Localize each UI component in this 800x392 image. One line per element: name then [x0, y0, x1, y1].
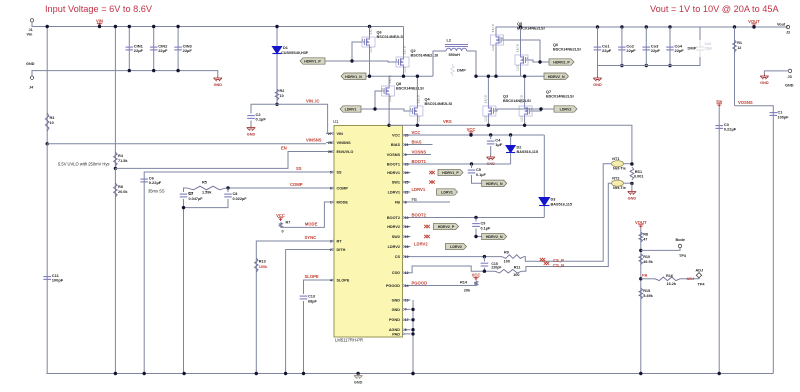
svg-text:VCC: VCC [472, 273, 481, 278]
svg-text:BOOT1: BOOT1 [412, 159, 427, 164]
resistor R14 [474, 281, 478, 286]
svg-text:PGOOD: PGOOD [412, 281, 428, 286]
pin BIAS 21 [404, 144, 410, 146]
pin CS 13 [404, 256, 410, 258]
wire EN [115, 152, 326, 169]
pin DITH 2 [326, 249, 332, 251]
wire LDRV2 to gates [532, 109, 554, 111]
net tag HDRV1_N sw [341, 73, 366, 79]
svg-text:FB: FB [642, 273, 647, 278]
svg-text:0.22µF: 0.22µF [149, 180, 162, 185]
svg-text:22µF: 22µF [675, 48, 685, 53]
pin COMP 6 [326, 187, 332, 189]
svg-text:22µF: 22µF [602, 48, 612, 53]
svg-text:DITH: DITH [337, 248, 346, 252]
svg-text:BSC014NE2LSI: BSC014NE2LSI [425, 102, 453, 106]
capacitor CIN3 [177, 27, 179, 71]
svg-text:19: 19 [405, 298, 409, 302]
svg-text:0.22µF: 0.22µF [724, 127, 737, 132]
wire CS row [411, 256, 503, 258]
capacitor C7 [184, 188, 188, 192]
svg-text:VOSNS: VOSNS [387, 153, 401, 157]
svg-text:CS: CS [395, 255, 401, 259]
capacitor Co5 DMP ghost [696, 40, 704, 57]
pin FB 8 [404, 201, 410, 203]
svg-text:CS_N: CS_N [553, 263, 564, 268]
net tag LDRV1 pin [437, 189, 458, 195]
net tag HDRV1_N mid [482, 180, 507, 186]
capacitor C11 [46, 144, 48, 374]
capacitor C9 [474, 216, 477, 219]
svg-text:VOSNS: VOSNS [412, 150, 427, 155]
svg-text:TP3: TP3 [679, 254, 686, 258]
ground input rail [214, 76, 222, 81]
svg-text:220pF: 220pF [491, 266, 502, 270]
pin SLOPE 4 [326, 279, 332, 281]
svg-text:1,2,3: 1,2,3 [516, 64, 520, 70]
wire VCC row [411, 134, 545, 136]
pin CSG 12 [404, 272, 410, 274]
svg-text:SLOPE: SLOPE [305, 274, 319, 279]
pin MODE 1 [326, 201, 332, 203]
svg-text:SYNC: SYNC [305, 235, 317, 240]
diode D3 [543, 135, 545, 218]
svg-text:PAD: PAD [392, 332, 400, 336]
svg-text:VCC: VCC [276, 213, 285, 218]
svg-text:5,6,7,8: 5,6,7,8 [369, 26, 373, 34]
svg-text:0.1µF: 0.1µF [481, 226, 491, 230]
wire Q6 source to SW1 node [369, 49, 371, 76]
svg-text:100: 100 [513, 273, 519, 277]
svg-text:Co5: Co5 [705, 42, 712, 46]
svg-text:C8: C8 [233, 192, 238, 196]
svg-text:R8: R8 [643, 233, 648, 237]
svg-text:VOUT: VOUT [635, 220, 647, 225]
svg-text:BSC014NE2LSI: BSC014NE2LSI [553, 48, 581, 52]
no-connect flag SW1 [429, 180, 435, 183]
svg-text:20: 20 [405, 133, 409, 137]
svg-text:ADJ: ADJ [696, 268, 704, 272]
pin PAD [404, 333, 410, 335]
svg-text:C7: C7 [189, 192, 194, 196]
transistor Q2 [396, 46, 409, 73]
svg-text:VCC: VCC [467, 127, 476, 132]
net tag HDRV1_P pin [438, 169, 463, 175]
net tag LDRV2 gate [554, 106, 577, 112]
svg-text:550nH: 550nH [449, 53, 461, 57]
svg-text:Net-Tie: Net-Tie [613, 166, 626, 170]
svg-text:22µF: 22µF [626, 48, 636, 53]
svg-text:BOOT2: BOOT2 [387, 216, 400, 220]
svg-text:Vout: Vout [777, 23, 786, 27]
svg-text:20k: 20k [464, 288, 471, 292]
svg-text:Vout = 1V to 10V @ 20A to 45A: Vout = 1V to 10V @ 20A to 45A [650, 4, 779, 14]
svg-text:2: 2 [330, 248, 332, 252]
svg-text:C13: C13 [308, 295, 315, 299]
diode D2 [509, 133, 512, 136]
pin VINSNS 28 [326, 142, 332, 144]
svg-text:EN: EN [281, 146, 287, 151]
wire Q5 source to SW2 [495, 47, 497, 76]
svg-text:HDRV1_P: HDRV1_P [304, 60, 321, 64]
no-connect flag HDRV1 [429, 171, 435, 174]
svg-text:5.5V UVLO with 250mV Hys: 5.5V UVLO with 250mV Hys [58, 162, 109, 167]
svg-text:ADJ: ADJ [687, 277, 695, 281]
wire HDRV1_P to gates [325, 42, 362, 61]
resistor R4 [114, 27, 116, 169]
svg-text:LDRV2: LDRV2 [450, 245, 462, 249]
net tag LDRV1 gate [340, 106, 361, 112]
svg-text:COMP: COMP [290, 182, 303, 187]
svg-text:5,6,7,8: 5,6,7,8 [491, 24, 495, 32]
capacitor Co2 [620, 25, 623, 28]
svg-text:GND: GND [26, 62, 35, 66]
wire Q4 source to VRS [416, 118, 418, 125]
wire VRS rail [403, 125, 632, 163]
wire DITH [286, 250, 326, 374]
svg-text:15: 15 [405, 235, 409, 239]
svg-text:R7: R7 [286, 221, 291, 225]
pin HDRV2 16 [404, 226, 410, 228]
power flag VOUT fb [638, 225, 643, 228]
svg-text:27: 27 [328, 132, 332, 136]
resistor R8 fb [640, 228, 642, 374]
svg-text:RS1: RS1 [635, 170, 642, 174]
svg-text:R11: R11 [514, 265, 521, 269]
svg-text:35ms SS: 35ms SS [148, 189, 165, 194]
svg-text:26: 26 [328, 150, 332, 154]
svg-text:5,6,7,8: 5,6,7,8 [520, 95, 524, 103]
wire GND rail [32, 71, 218, 76]
testpoint TP3 Bode [639, 249, 642, 252]
svg-text:22µF: 22µF [705, 47, 714, 51]
svg-text:BAS516,115: BAS516,115 [551, 202, 573, 206]
wire Q6 drain from rail [368, 25, 371, 28]
wire Q8 source to VRS [388, 98, 390, 125]
svg-text:1,2,3: 1,2,3 [520, 115, 524, 121]
svg-text:0.1µF: 0.1µF [476, 173, 486, 177]
svg-text:D1: D1 [283, 46, 288, 50]
inductor L2 [433, 51, 446, 76]
svg-text:49.9k: 49.9k [643, 260, 653, 264]
power flag VIN [97, 23, 102, 26]
svg-text:14: 14 [405, 284, 409, 288]
svg-text:68pF: 68pF [308, 300, 318, 304]
svg-text:6: 6 [405, 328, 407, 332]
svg-text:0.1µF: 0.1µF [256, 117, 267, 122]
svg-text:R15: R15 [643, 289, 650, 293]
resistor R8 [114, 167, 117, 170]
svg-text:R8: R8 [118, 185, 123, 189]
svg-text:J1: J1 [29, 28, 33, 32]
svg-text:BAS516,115: BAS516,115 [517, 150, 539, 154]
net tie NT1 [612, 161, 624, 167]
svg-text:22µF: 22µF [158, 48, 168, 53]
no-connect flag CS_P [540, 258, 546, 261]
svg-text:R1: R1 [737, 41, 742, 45]
svg-text:C9: C9 [481, 222, 486, 226]
svg-text:16: 16 [405, 225, 409, 229]
resistor DMP ghost [451, 64, 455, 76]
svg-text:MODE: MODE [305, 222, 318, 227]
svg-text:HDRV2_P: HDRV2_P [438, 225, 455, 229]
svg-text:22µF: 22µF [134, 48, 144, 53]
svg-text:C1: C1 [778, 111, 783, 115]
wire Vin rail [32, 22, 404, 27]
pin HDRV1 24 [404, 172, 410, 174]
svg-text:TP4: TP4 [698, 282, 706, 286]
svg-text:CUS05S40,H3F: CUS05S40,H3F [281, 51, 309, 55]
wire BOOT1 row [411, 163, 511, 165]
svg-text:100pF: 100pF [778, 115, 790, 119]
svg-text:VOSNS: VOSNS [738, 100, 753, 105]
pin VIN 27 [326, 133, 332, 135]
svg-text:12: 12 [405, 271, 409, 275]
svg-text:0.001: 0.001 [634, 174, 644, 178]
svg-text:5,6,7,8: 5,6,7,8 [516, 44, 520, 52]
diode D1 [276, 27, 278, 105]
capacitor C2 [251, 104, 277, 113]
svg-text:BSC014NE2LSI: BSC014NE2LSI [546, 94, 574, 98]
svg-text:100: 100 [504, 260, 510, 264]
svg-text:U1: U1 [333, 119, 339, 124]
svg-text:BSC014NE2LSI: BSC014NE2LSI [503, 99, 531, 103]
resistor R2 [275, 89, 279, 100]
svg-text:BSC014NE2LSI: BSC014NE2LSI [377, 35, 405, 39]
svg-text:71.5k: 71.5k [118, 159, 128, 163]
transistor Q6b [519, 25, 522, 28]
capacitor CIN1 [128, 27, 130, 71]
capacitor Co4 [668, 25, 671, 28]
svg-text:LDRV2: LDRV2 [560, 108, 572, 112]
svg-text:BIAS: BIAS [391, 143, 401, 147]
pin BOOT1 23 [404, 163, 410, 165]
wire SW2 node [476, 75, 544, 77]
svg-text:BOOT1: BOOT1 [387, 162, 400, 166]
wire SS [144, 172, 326, 374]
wire VINSNS [46, 142, 49, 145]
svg-text:10: 10 [50, 121, 54, 125]
wire CS_N to NT2 [522, 183, 612, 271]
svg-text:1.59k: 1.59k [202, 191, 212, 195]
svg-text:J3: J3 [788, 75, 792, 79]
svg-text:SS: SS [296, 166, 302, 171]
svg-text:R16: R16 [666, 274, 673, 278]
svg-text:5.49k: 5.49k [643, 294, 653, 298]
power flag VCC [468, 132, 473, 135]
svg-text:VCC: VCC [392, 133, 400, 137]
svg-text:GND: GND [214, 83, 223, 87]
transistor Q3 [487, 76, 489, 104]
svg-text:25: 25 [405, 180, 409, 184]
svg-text:R3: R3 [50, 116, 55, 120]
svg-text:5,6,7,8: 5,6,7,8 [483, 95, 487, 103]
capacitor C5 [470, 162, 473, 165]
svg-text:LM5117RH-PR: LM5117RH-PR [335, 338, 363, 343]
no-connect flag HDRV2 [424, 225, 430, 228]
resistor R15 [639, 288, 643, 299]
svg-text:Bode: Bode [676, 238, 686, 242]
svg-text:R2: R2 [280, 89, 285, 93]
svg-text:Q2: Q2 [411, 49, 416, 53]
resistor R7 [279, 223, 283, 228]
svg-text:FB: FB [395, 200, 400, 204]
svg-text:100pF: 100pF [52, 278, 64, 283]
capacitor C3 [718, 107, 720, 374]
pin GND 19 [404, 299, 410, 301]
op-amp U1 LM5117 controller [334, 126, 403, 338]
svg-text:R10: R10 [643, 255, 650, 259]
no-connect flag SW2 [424, 235, 430, 238]
svg-text:GND: GND [354, 381, 363, 385]
svg-text:18: 18 [405, 245, 409, 249]
svg-text:FB: FB [412, 197, 418, 202]
svg-text:DMP: DMP [457, 68, 466, 73]
svg-text:24: 24 [405, 171, 409, 175]
capacitor C13 [300, 296, 308, 299]
svg-text:Vin: Vin [27, 33, 34, 37]
svg-text:6: 6 [330, 186, 332, 190]
transistor Q4 [416, 76, 418, 104]
svg-text:BOOT2: BOOT2 [412, 213, 427, 218]
svg-text:5,6,7,8: 5,6,7,8 [403, 46, 407, 54]
net tag HDRV2_P gate [549, 59, 574, 65]
resistor R11 [495, 269, 522, 273]
wire output cap ground [598, 65, 671, 67]
svg-text:10: 10 [405, 216, 409, 220]
svg-text:GND: GND [247, 133, 256, 137]
resistor R9 [502, 255, 524, 259]
svg-text:3: 3 [330, 239, 332, 243]
resistor R13 [255, 258, 259, 272]
net tag HDRV2_P pin [434, 223, 459, 229]
svg-text:DMP: DMP [688, 46, 697, 51]
pin LDRV2 18 [404, 246, 410, 248]
pin LDRV1 22 [404, 191, 410, 193]
svg-text:28: 28 [328, 141, 332, 145]
svg-text:COMP: COMP [337, 186, 349, 190]
pin AGND 6 [404, 329, 410, 331]
capacitor CIN2 [153, 27, 155, 71]
svg-text:GND: GND [785, 84, 794, 88]
net tag HDRV2_N mid [482, 233, 507, 239]
transistor Q5 [491, 24, 504, 51]
transistor Q8 [388, 76, 390, 84]
svg-text:L2: L2 [447, 39, 451, 43]
capacitor C15 [483, 255, 486, 258]
pin EN/UVLO 26 [326, 151, 332, 153]
svg-text:16.2k: 16.2k [667, 282, 677, 286]
wire VIN_IC [275, 103, 278, 106]
wire Vout rail [496, 27, 788, 33]
ground RS1 [628, 190, 636, 195]
svg-text:13: 13 [405, 255, 409, 259]
pin SW2 15 [404, 236, 410, 238]
svg-text:BIAS: BIAS [412, 140, 422, 145]
resistor RS1 [624, 163, 632, 165]
wire VOSNS [735, 106, 774, 374]
svg-text:HDRV2_N: HDRV2_N [486, 235, 503, 239]
svg-text:HDRV2_N: HDRV2_N [548, 75, 565, 79]
svg-text:NT2: NT2 [612, 177, 619, 181]
pin PGND 17 [404, 319, 410, 321]
svg-text:1µF: 1µF [495, 142, 503, 147]
svg-text:GND: GND [628, 197, 637, 201]
svg-text:22µF: 22µF [183, 48, 193, 53]
svg-text:5: 5 [330, 170, 332, 174]
ground output caps [593, 76, 601, 81]
capacitor C4 [489, 133, 492, 136]
svg-text:PGOOD: PGOOD [386, 284, 400, 288]
wire COMP [228, 187, 326, 189]
capacitor Co3 [645, 25, 648, 28]
connector J3 GND [788, 69, 791, 72]
pin VCC 20 [404, 134, 410, 136]
svg-text:VIN: VIN [337, 132, 344, 136]
svg-text:LDRV2: LDRV2 [414, 242, 428, 247]
wire SLOPE [304, 280, 327, 294]
ground C2 [247, 126, 255, 131]
net tag LDRV2 pin [446, 243, 467, 249]
svg-text:R9: R9 [504, 251, 509, 255]
svg-text:C5: C5 [476, 168, 481, 172]
svg-text:SW2: SW2 [392, 235, 400, 239]
wire CS_P to NT1 [524, 164, 612, 262]
svg-text:HDRV1_N: HDRV1_N [486, 182, 503, 186]
svg-text:VRS: VRS [443, 119, 452, 124]
svg-text:Q8: Q8 [396, 82, 401, 86]
ground C4 [487, 155, 495, 160]
wire CSG row [411, 266, 496, 273]
svg-text:47: 47 [643, 237, 647, 241]
svg-text:HDRV1_N: HDRV1_N [345, 75, 362, 79]
svg-text:PGND: PGND [389, 318, 400, 322]
svg-text:4: 4 [330, 278, 332, 282]
svg-text:NT1: NT1 [612, 157, 619, 161]
svg-text:Q7: Q7 [546, 90, 551, 94]
svg-text:1,2,3: 1,2,3 [483, 115, 487, 121]
svg-text:MODE: MODE [337, 200, 349, 204]
pin BOOT2 10 [404, 217, 410, 219]
resistor R5 [187, 186, 226, 190]
svg-text:9: 9 [405, 153, 407, 157]
resistor R10 [639, 254, 643, 265]
svg-text:LDRV1: LDRV1 [412, 187, 426, 192]
wire Q7 source to VRS [524, 118, 526, 125]
svg-text:R14: R14 [460, 281, 468, 285]
svg-text:0.022µF: 0.022µF [233, 197, 248, 201]
ground J3 [760, 74, 768, 79]
svg-text:VCC: VCC [412, 130, 421, 135]
svg-text:1: 1 [330, 200, 332, 204]
transistor Q6 [362, 26, 375, 53]
svg-text:21: 21 [405, 143, 409, 147]
svg-text:J2: J2 [786, 31, 790, 35]
svg-text:5,6,7,8: 5,6,7,8 [388, 75, 392, 83]
svg-text:0.047µF: 0.047µF [189, 197, 204, 201]
net tag HDRV2_N sw [544, 73, 569, 79]
svg-text:LDRV2: LDRV2 [388, 245, 400, 249]
wire bottom ground rail [46, 373, 773, 375]
wire Q2 drain from rail [403, 27, 405, 56]
resistor R3 [46, 27, 48, 144]
svg-text:D3: D3 [551, 198, 556, 202]
capacitor Co1 [596, 25, 599, 28]
svg-text:Sᴡ: Sᴡ [716, 99, 723, 104]
svg-text:VIN_IC: VIN_IC [306, 98, 320, 103]
wire BOOT2 row [411, 217, 545, 219]
svg-text:Q5: Q5 [517, 22, 522, 26]
